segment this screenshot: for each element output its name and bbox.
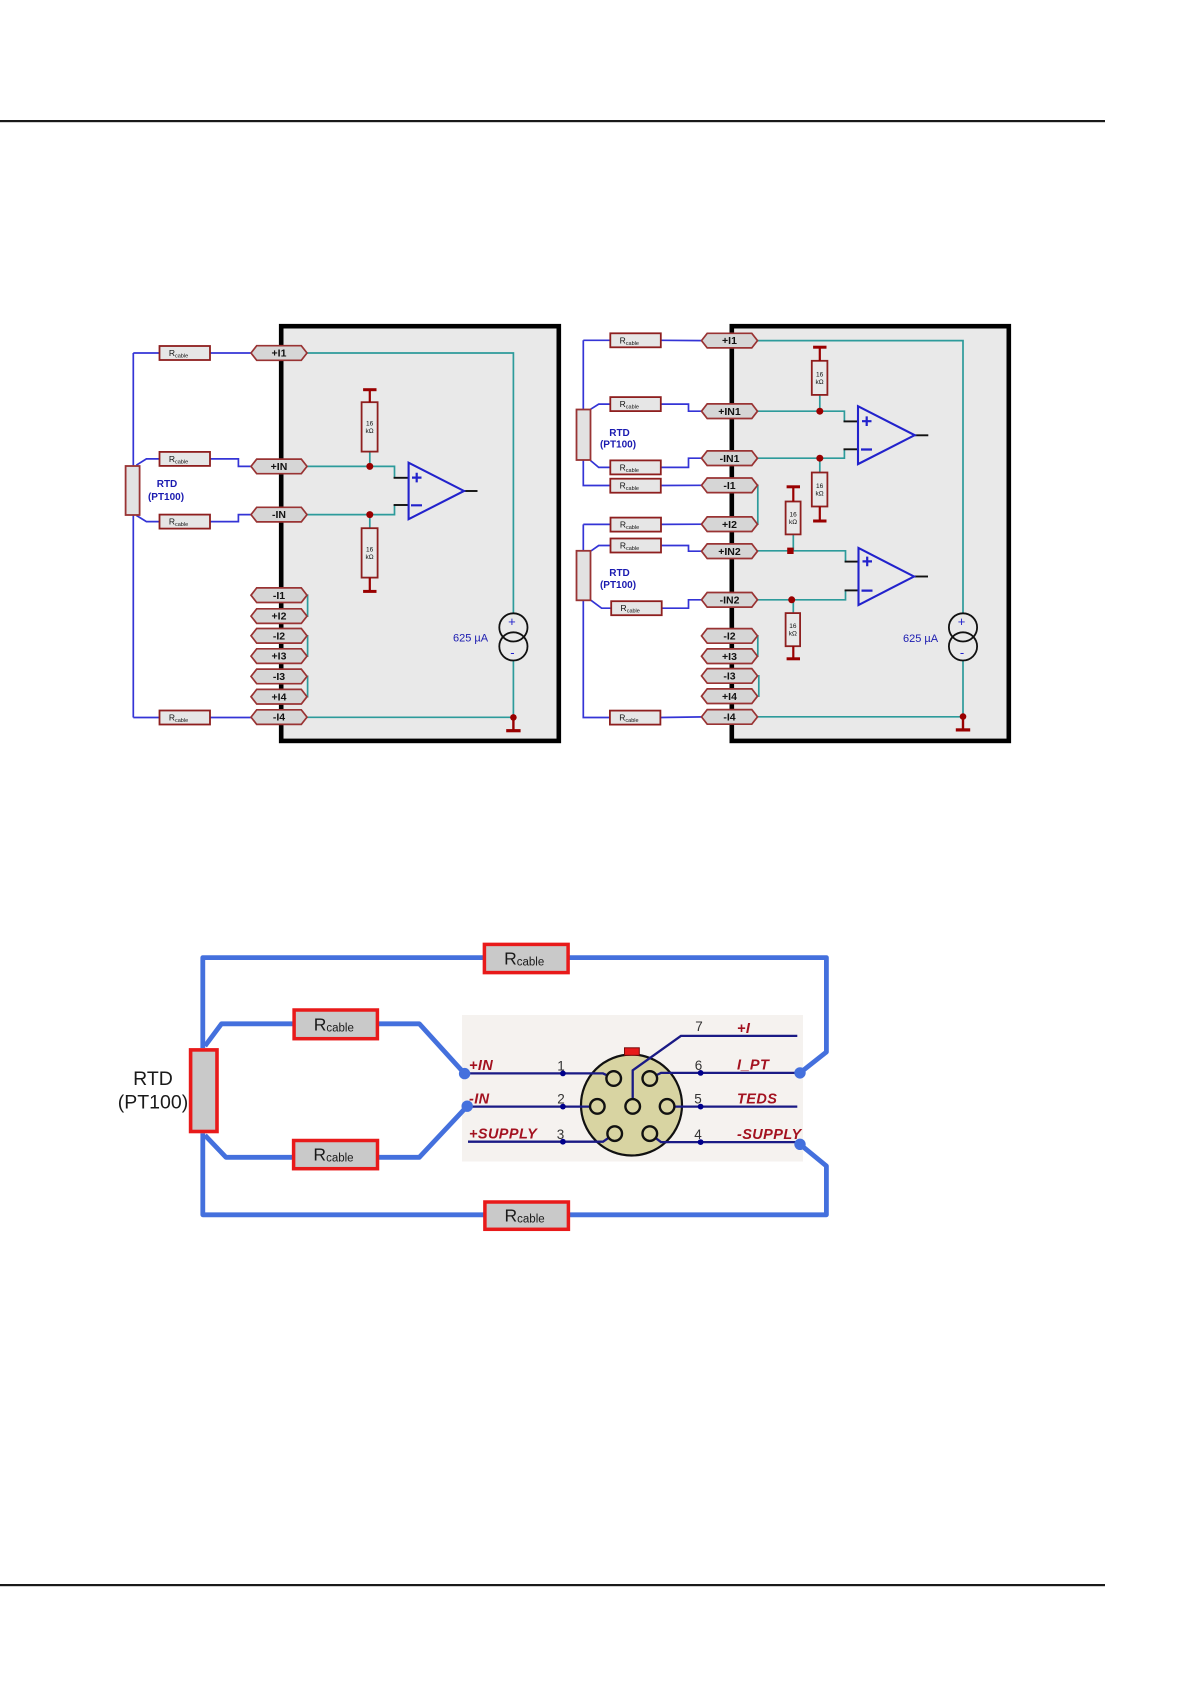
module box U10 (right schematic, dual RTD input)	[732, 326, 1009, 741]
svg-text:(PT100): (PT100)	[600, 580, 636, 591]
wire +SUPPLY line to pin 3	[468, 1134, 615, 1142]
connector pin 3	[607, 1126, 622, 1141]
pin tag -I2 (left schematic)	[251, 629, 307, 644]
pin tag -I1 (left schematic)	[251, 588, 307, 603]
svg-text:kΩ: kΩ	[366, 554, 374, 561]
pin tag +I4 (left schematic)	[251, 689, 307, 704]
pin tag -IN2 (right schematic)	[702, 593, 758, 608]
resistor R15 16 kOhm (below -IN2)	[786, 613, 801, 659]
svg-text:+IN2: +IN2	[718, 546, 741, 558]
op-amp U12 (right schematic lower)	[859, 548, 915, 605]
pin tag -I2 (right schematic)	[702, 629, 758, 644]
top horizontal rule	[0, 120, 1105, 122]
wire resistor R14 to +IN2 node	[792, 534, 794, 550]
ground node junction (left)	[510, 714, 517, 721]
resistor Rcable (+IN1 lead)	[610, 397, 661, 411]
wire RTD to +IN (thick blue)	[205, 1024, 465, 1074]
wire -I1 row (blue)	[661, 484, 704, 486]
pin tag +I1 (right schematic)	[702, 333, 758, 348]
pin number label 4	[694, 1127, 702, 1142]
op-amp U11 input stub (+)	[844, 420, 859, 422]
node +IN2 junction	[787, 548, 793, 554]
svg-text:6: 6	[695, 1058, 703, 1073]
wire RTD1 to -I1 vertical (blue)	[583, 460, 610, 486]
pin tag -I3 (right schematic)	[702, 669, 758, 684]
svg-text:16: 16	[816, 371, 824, 378]
wire -IN to op-amp U2 inverting input (teal, left)	[305, 505, 395, 515]
svg-text:+SUPPLY: +SUPPLY	[469, 1127, 538, 1143]
label RTD (PT100) connector figure	[118, 1068, 188, 1114]
current source 625 uA (right)	[903, 613, 977, 660]
wire +IN row (blue)	[136, 459, 253, 467]
node -SUPPLY (blue dot)	[794, 1139, 805, 1150]
resistor R13 16 kOhm (below -IN1)	[812, 473, 828, 522]
wire RTD2 to -I4 vertical (blue)	[583, 600, 610, 718]
junction dot node 4	[698, 1139, 704, 1145]
svg-text:5: 5	[694, 1092, 702, 1107]
svg-text:1: 1	[557, 1059, 565, 1074]
svg-text:kΩ: kΩ	[789, 519, 797, 526]
signal label -SUPPLY	[737, 1127, 802, 1143]
svg-text:+I: +I	[737, 1021, 751, 1037]
RTD PT100 sensor (left schematic)	[126, 466, 140, 515]
svg-text:-I1: -I1	[273, 590, 285, 602]
pin tag -I1 (right schematic)	[702, 478, 758, 493]
svg-text:+I2: +I2	[272, 611, 287, 623]
pin tag -IN (left schematic)	[251, 507, 307, 522]
resistor Rcable (-IN1 lead)	[610, 460, 661, 474]
connector pin 7 (center)	[625, 1099, 640, 1114]
op-amp U11 output stub	[915, 434, 929, 436]
wire -I4 row (blue, right)	[660, 716, 703, 719]
signal label +SUPPLY	[469, 1127, 538, 1143]
connector pin 4	[643, 1126, 658, 1141]
pin tag +I1 (left schematic)	[251, 346, 307, 361]
pin tag +IN2 (right schematic)	[702, 544, 758, 559]
ground symbol (right)	[956, 717, 970, 730]
wire +I1 row (blue)	[133, 352, 253, 354]
signal label TEDS	[737, 1091, 777, 1107]
wire -IN2 row (blue)	[591, 600, 705, 608]
svg-text:7: 7	[695, 1019, 703, 1034]
svg-text:+I3: +I3	[272, 651, 287, 663]
node +IN1 junction	[816, 408, 823, 415]
wire -IN2 to op-amp U12 (teal)	[756, 590, 846, 599]
resistor Rcable (-I4 lead, left)	[160, 711, 211, 725]
RTD PT100 sensor (connector figure)	[191, 1050, 217, 1132]
svg-text:16: 16	[789, 623, 797, 630]
svg-text:+I1: +I1	[722, 335, 737, 347]
pin number label 2	[557, 1092, 565, 1107]
op-amp U11 (right schematic upper)	[858, 406, 915, 464]
wire -IN1 to op-amp U11 (teal)	[755, 449, 844, 458]
node -IN1 junction	[816, 455, 823, 462]
wire current source to ground node (teal, left)	[512, 660, 514, 717]
wire resistor R5 to +IN node (teal)	[369, 452, 371, 467]
wire +IN1 to op-amp U11 (teal)	[755, 411, 844, 421]
svg-text:16: 16	[366, 420, 374, 427]
current source 625 uA (left)	[453, 613, 528, 660]
junction dot node 3	[560, 1139, 566, 1145]
op-amp U12 output stub	[914, 576, 928, 578]
svg-text:16: 16	[816, 483, 824, 490]
pin tag +I3 (right schematic)	[702, 649, 758, 664]
wire -IN row (blue)	[136, 515, 253, 522]
ground symbol (left)	[506, 717, 520, 730]
resistor Rcable (+IN lead, left)	[160, 452, 211, 466]
wire +I1 row (blue, right)	[583, 339, 703, 341]
svg-text:-IN: -IN	[469, 1091, 490, 1107]
resistor Rcable (+I2 lead)	[611, 518, 662, 532]
resistor R14 16 kOhm (above +IN2)	[786, 487, 801, 535]
svg-text:RTD: RTD	[133, 1068, 173, 1090]
resistor Rcable (-I4 lead, right)	[610, 711, 661, 725]
connector figure background panel	[462, 1015, 803, 1162]
connector pin 2	[590, 1099, 605, 1114]
svg-text:-IN2: -IN2	[720, 594, 740, 606]
RTD PT100 sensor 2 (right schematic)	[577, 551, 591, 601]
resistor Rcable (-IN lead, left)	[160, 515, 211, 529]
wire RTD1 loop vertical (blue, right)	[582, 340, 584, 409]
pin tag +I2 (right schematic)	[702, 517, 758, 532]
wire +IN to op-amp U2 non-inverting input (teal, left)	[305, 466, 395, 477]
svg-text:+IN1: +IN1	[718, 406, 741, 418]
svg-text:-IN: -IN	[272, 509, 286, 521]
wire pin 6 to I_PT line	[650, 1073, 798, 1079]
svg-text:-I4: -I4	[723, 712, 735, 724]
svg-text:kΩ: kΩ	[816, 491, 824, 498]
wire resistor R12 to +IN1 node	[819, 395, 821, 411]
svg-text:+: +	[958, 614, 966, 629]
wire resistor R6 to -IN node (teal)	[369, 515, 371, 529]
op-amp U12 input stub (-)	[845, 589, 859, 591]
op-amp U2 input stub (+)	[394, 477, 409, 479]
wire +IN1 row (blue)	[591, 404, 704, 411]
svg-text:+I4: +I4	[272, 691, 287, 703]
ground node junction (right)	[960, 713, 967, 720]
wire pin 7 to +I line	[633, 1036, 798, 1107]
wire RTD loop vertical (blue, left)	[132, 353, 134, 466]
svg-text:+I4: +I4	[722, 691, 737, 703]
resistor R12 16 kOhm (above +IN1)	[812, 347, 828, 395]
resistor R5 16 kOhm (upper, left schematic)	[362, 390, 378, 452]
node -IN junction (left)	[366, 511, 373, 518]
op-amp U11 input stub (-)	[844, 448, 859, 450]
node -IN (blue dot)	[462, 1101, 473, 1112]
pin tag +IN1 (right schematic)	[702, 404, 758, 419]
wire -IN1 row (blue)	[591, 458, 704, 467]
svg-text:+I1: +I1	[272, 348, 287, 360]
connector body (M12 circular, 7-pin)	[581, 1055, 682, 1156]
resistor Rcable (+IN lead, connector figure)	[294, 1010, 377, 1039]
svg-text:RTD: RTD	[609, 568, 630, 579]
svg-text:-: -	[510, 645, 514, 660]
pin tag -IN1 (right schematic)	[702, 451, 758, 466]
RTD PT100 sensor 1 (right schematic)	[577, 410, 591, 461]
op-amp U2 (left schematic)	[409, 463, 464, 520]
resistor Rcable (-I1 lead)	[610, 479, 661, 493]
pin number label 3	[557, 1127, 565, 1142]
svg-text:I_PT: I_PT	[737, 1058, 770, 1074]
svg-text:(PT100): (PT100)	[148, 492, 184, 503]
op-amp U2 output stub	[464, 490, 478, 492]
svg-text:4: 4	[694, 1127, 702, 1142]
wire resistor R13 to -IN1 node	[819, 458, 821, 472]
wire -I3 to +I4 (teal jumper, right)	[756, 676, 759, 696]
wire -I2 to +I3 (teal jumper)	[306, 636, 308, 656]
wire -I4 to ground node (teal, left)	[306, 716, 514, 718]
wire RTD to -I4 vertical (blue, left)	[132, 515, 134, 718]
svg-text:+I2: +I2	[722, 519, 737, 531]
svg-text:-SUPPLY: -SUPPLY	[737, 1127, 802, 1143]
wire +IN2 to op-amp U12 (teal)	[756, 551, 846, 562]
svg-text:RTD: RTD	[157, 479, 178, 490]
svg-text:+I3: +I3	[722, 651, 737, 663]
node -IN2 junction	[788, 596, 795, 603]
pin number label 7	[695, 1019, 703, 1034]
svg-text:-I2: -I2	[723, 631, 735, 643]
label RTD (PT100) sensor 2	[600, 568, 636, 591]
pin tag +IN (left schematic)	[251, 459, 307, 474]
connector pin 5	[660, 1099, 675, 1114]
wire RTD loop bottom (thick blue)	[203, 1133, 827, 1215]
resistor Rcable (bottom loop, connector figure)	[485, 1202, 569, 1229]
svg-text:-IN1: -IN1	[720, 453, 740, 465]
svg-text:+IN: +IN	[271, 461, 288, 473]
wire -I3 to +I4 (teal jumper)	[306, 676, 308, 696]
module box U1 (left schematic, single RTD input)	[281, 326, 559, 741]
wire +I1 to current source (teal, left)	[305, 353, 513, 614]
connector keying notch (red)	[625, 1048, 640, 1056]
bottom horizontal rule	[0, 1584, 1105, 1586]
signal label +IN	[469, 1058, 493, 1074]
resistor Rcable (-IN2 lead)	[611, 601, 662, 615]
pin number label 5	[694, 1092, 702, 1107]
wire +IN line to pin 1	[468, 1073, 614, 1078]
svg-text:RTD: RTD	[609, 428, 630, 439]
svg-text:-I1: -I1	[723, 480, 735, 492]
junction dot node 6	[698, 1070, 704, 1076]
svg-text:16: 16	[366, 546, 374, 553]
svg-text:kΩ: kΩ	[366, 428, 374, 435]
pin number label 6	[695, 1058, 703, 1073]
node I_PT (blue dot)	[794, 1067, 805, 1078]
wire RTD to -IN (thick blue)	[205, 1106, 467, 1157]
svg-text:TEDS: TEDS	[737, 1091, 777, 1107]
svg-text:(PT100): (PT100)	[118, 1092, 188, 1114]
wire pin 5 to TEDS line	[667, 1105, 797, 1107]
label RTD (PT100) sensor 1	[600, 428, 636, 451]
svg-text:+: +	[508, 614, 516, 629]
wire resistor R15 to -IN2 node	[792, 600, 794, 613]
connector pin 1	[606, 1071, 621, 1086]
junction dot node 2	[560, 1104, 566, 1110]
resistor Rcable (+I1 lead, right)	[610, 333, 661, 347]
node +IN (blue dot)	[459, 1068, 470, 1079]
pin tag +I4 (right schematic)	[702, 689, 758, 704]
wire pin 4 to -SUPPLY line	[650, 1134, 798, 1143]
svg-text:16: 16	[789, 511, 797, 518]
label RTD (PT100) left schematic	[148, 479, 184, 503]
svg-text:2: 2	[557, 1092, 565, 1107]
op-amp U12 input stub (+)	[845, 561, 859, 563]
node +IN junction (left)	[366, 463, 373, 470]
svg-text:-I3: -I3	[723, 671, 735, 683]
wire +IN2 row (blue)	[591, 546, 705, 552]
svg-text:(PT100): (PT100)	[600, 440, 636, 451]
pin tag -I3 (left schematic)	[251, 669, 307, 684]
wire +I2 row (blue)	[583, 523, 705, 525]
svg-text:kΩ: kΩ	[816, 379, 824, 386]
svg-text:kΩ: kΩ	[789, 631, 797, 638]
wire -I4 row (blue)	[133, 717, 253, 719]
connector pin 6	[643, 1071, 658, 1086]
wire -I1 to +I2 (teal jumper)	[306, 595, 308, 616]
wire -I1 to +I2 (teal jumper, right)	[756, 485, 758, 524]
signal label +I	[737, 1021, 751, 1037]
resistor Rcable (-IN lead, connector figure)	[294, 1141, 378, 1169]
resistor Rcable (+I1 lead, left)	[160, 346, 211, 360]
svg-text:-I2: -I2	[273, 630, 285, 642]
op-amp U2 input stub (-)	[394, 504, 409, 506]
junction dot node 5	[698, 1104, 704, 1110]
signal label -IN	[469, 1091, 490, 1107]
wire RTD2 loop vertical (blue)	[582, 524, 584, 551]
resistor R6 16 kOhm (lower, left schematic)	[362, 528, 378, 591]
svg-text:+IN: +IN	[469, 1058, 493, 1074]
pin tag -I4 (right schematic)	[702, 710, 758, 725]
svg-text:3: 3	[557, 1127, 565, 1142]
wire current source to ground node (teal, right)	[962, 660, 964, 716]
wire -IN line to pin 2	[468, 1105, 597, 1107]
svg-text:-: -	[960, 645, 964, 660]
pin tag +I3 (left schematic)	[251, 649, 307, 664]
svg-text:-I4: -I4	[273, 712, 285, 724]
pin number label 1	[557, 1059, 565, 1074]
resistor Rcable (top loop, connector figure)	[484, 944, 568, 972]
svg-text:625 µA: 625 µA	[453, 633, 489, 645]
wire RTD loop top (thick blue)	[203, 958, 827, 1073]
wire -I4 to ground node (teal, right)	[756, 716, 964, 718]
resistor Rcable (+IN2 lead)	[611, 539, 662, 553]
junction dot node 1	[560, 1071, 566, 1077]
svg-text:-I3: -I3	[273, 671, 285, 683]
wire +I1 to current source (teal, right)	[755, 341, 963, 614]
pin tag +I2 (left schematic)	[251, 609, 307, 624]
svg-text:625 µA: 625 µA	[903, 633, 939, 645]
signal label I_PT	[737, 1058, 770, 1074]
wire -I2 to +I3 (teal jumper, right)	[756, 636, 758, 656]
pin tag -I4 (left schematic)	[251, 710, 307, 725]
